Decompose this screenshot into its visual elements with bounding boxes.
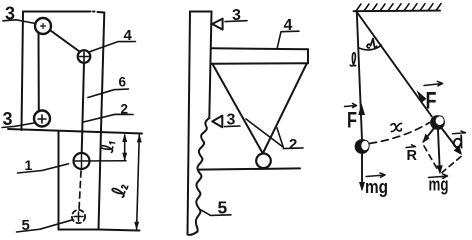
svg-text:F: F (426, 88, 437, 115)
wall column top edge (190, 11, 212, 13)
label mg right with vector arrow (429, 174, 449, 195)
label 3 bottom underline (225, 125, 241, 128)
roller 5 cross (74, 212, 83, 221)
floor line (199, 168, 301, 169)
tension F arrowhead on vertical (358, 104, 365, 116)
lower block bottom edge (59, 230, 140, 231)
roller 1 circle (74, 153, 90, 169)
svg-text:1: 1 (25, 157, 33, 173)
svg-text:5: 5 (22, 217, 30, 234)
svg-text:4: 4 (284, 17, 293, 34)
label F left with vector arrow (345, 103, 358, 132)
label alpha (367, 39, 376, 48)
wall column right edge (209, 12, 211, 119)
Q arrow shaft (442, 128, 461, 153)
rod 2 vertical (82, 63, 84, 154)
dim label l2 (rotated script ell with sub 2) (111, 182, 128, 198)
svg-text:2: 2 (121, 102, 129, 117)
parallelogram dashed side from R tip (424, 146, 439, 171)
label 4 leader (89, 42, 136, 53)
pulley 3 top (35, 18, 51, 34)
svg-text:3: 3 (5, 4, 15, 24)
wall column left edge (188, 12, 191, 235)
bracket plate right cap (307, 49, 309, 63)
bracket plate top edge (212, 48, 309, 49)
label x (script) (391, 123, 402, 131)
mg arrow shaft right (438, 130, 440, 172)
R arrowhead (422, 134, 429, 144)
label 3 top underline (225, 20, 247, 23)
ball ring (256, 154, 271, 169)
roller 1 cross vertical (81, 153, 83, 169)
pendulum deflected string (357, 12, 432, 117)
trajectory dashed arc (370, 123, 430, 144)
frame top edge dot (93, 11, 95, 13)
svg-text:3: 3 (3, 109, 13, 129)
svg-text:F: F (347, 108, 357, 133)
svg-text:R: R (407, 148, 418, 164)
svg-text:4: 4 (124, 27, 133, 44)
svg-text:3: 3 (227, 112, 236, 129)
mg left arrowhead (359, 182, 365, 192)
inner vertical belt line (38, 34, 40, 112)
frame left edge (22, 12, 24, 130)
wall column torn wavy edge (196, 118, 209, 232)
label 5 leader (17, 220, 73, 232)
svg-text:5: 5 (218, 198, 228, 218)
dimension l2 line (137, 135, 140, 229)
pulley 3 top cross (41, 24, 46, 29)
label 2 leaders (246, 119, 283, 147)
label 3 bottom leader (2, 123, 34, 128)
dimension l1 line (124, 135, 126, 160)
dim l1 arrow down (122, 153, 127, 161)
label R with vector bar (406, 145, 418, 164)
label Q (a-bar) with vector bar (453, 131, 466, 148)
R arrow shaft (424, 128, 435, 142)
label 4 leader (277, 31, 299, 49)
strut right (264, 64, 307, 152)
extension line through roller 1 (74, 160, 126, 162)
label 1 leader (18, 164, 69, 173)
bracket plate bottom edge (212, 62, 309, 65)
pulley 4 cross (80, 52, 89, 61)
hinge support triangle bottom (212, 116, 222, 128)
dim label l1 (rotated script ell with sub 1) (100, 141, 115, 153)
pulley 3 bottom (34, 111, 50, 127)
dim l2 arrow up (137, 134, 142, 142)
belt diagonal pulley3top to pulley4 (51, 31, 80, 52)
right ball (filled with highlight) (430, 115, 445, 130)
strut left (213, 64, 263, 152)
left ball (filled with highlight) (355, 139, 370, 154)
pulley 4 circle (78, 50, 91, 63)
svg-text:3: 3 (232, 7, 241, 24)
angle arc (359, 45, 382, 50)
frame right edge (99, 13, 105, 230)
dashed centerline roller1 to roller5 (79, 171, 81, 210)
base plate line (8, 129, 142, 134)
label 6 leader (88, 89, 129, 98)
Q arrowhead (454, 146, 463, 155)
wall column bottom cap (188, 232, 198, 235)
ceiling hatches (356, 4, 441, 11)
pendulum vertical string (357, 12, 362, 140)
svg-text:6: 6 (119, 75, 127, 90)
label 2 underline (283, 147, 303, 150)
pulley 3 bottom cross (38, 115, 46, 123)
label mg left with vector arrow (365, 173, 388, 197)
mg right arrowhead (437, 165, 443, 174)
label 3 top leader (3, 20, 36, 24)
lower block left edge (58, 131, 60, 230)
ceiling line (354, 10, 441, 13)
mg arrow shaft left (361, 154, 363, 189)
hinge support triangle top (212, 19, 222, 30)
label ell (script l) (350, 53, 355, 66)
label 2 leader (84, 114, 134, 122)
roller 5 dashed circle (72, 210, 85, 223)
label F right with vector arrow (424, 81, 443, 114)
tension F arrowhead on deflected string (417, 90, 427, 103)
dim l1 arrow up (122, 134, 127, 142)
label 5 leader (201, 210, 232, 216)
frame top edge (23, 12, 104, 13)
svg-text:mg: mg (365, 177, 388, 197)
parallelogram dashed side from Q tip (442, 157, 461, 173)
svg-text:2: 2 (289, 136, 297, 153)
dim l2 arrow down (134, 222, 139, 230)
